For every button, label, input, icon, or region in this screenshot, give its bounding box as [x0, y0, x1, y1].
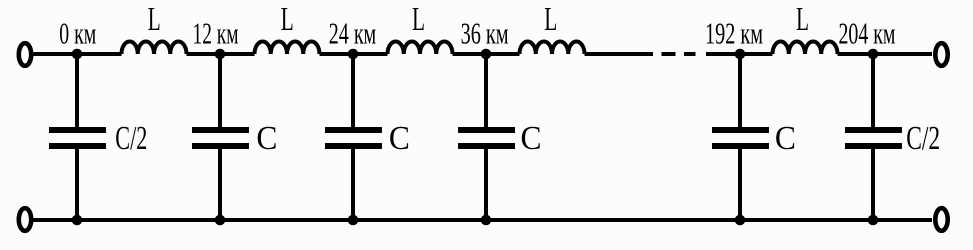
- node 0km dot top: [72, 49, 83, 60]
- wire dash 1: [662, 52, 676, 56]
- wire top segment D: [453, 52, 520, 56]
- capacitor C no.3: [325, 54, 382, 220]
- svg-text:12 км: 12 км: [193, 16, 239, 51]
- svg-text:C: C: [256, 120, 277, 157]
- inductor L4: [520, 41, 585, 54]
- node 36km dot top: [481, 49, 492, 60]
- terminal bottom-left: [19, 208, 31, 231]
- capacitor C/2 no.6: [845, 54, 902, 220]
- node 12km dot top: [215, 49, 226, 60]
- capacitor C/2 no.1: [49, 54, 106, 220]
- svg-text:C/2: C/2: [906, 120, 940, 157]
- svg-text:204 км: 204 км: [839, 16, 896, 51]
- svg-text:L: L: [148, 1, 161, 38]
- svg-text:24 км: 24 км: [329, 16, 377, 51]
- svg-text:C: C: [521, 120, 542, 157]
- wire bottom: [34, 218, 933, 222]
- svg-text:L: L: [796, 1, 809, 38]
- svg-text:C: C: [775, 120, 796, 157]
- inductor L2: [255, 41, 320, 54]
- wire top segment A: [34, 52, 122, 56]
- wire top segment C: [320, 52, 388, 56]
- node 192km dot top: [735, 49, 746, 60]
- svg-text:36 км: 36 км: [461, 16, 509, 51]
- svg-text:C/2: C/2: [115, 120, 147, 157]
- terminal bottom-right: [935, 208, 947, 231]
- terminal top-left: [19, 43, 31, 66]
- capacitor C no.4: [458, 54, 515, 220]
- svg-text:L: L: [544, 1, 557, 38]
- node 24km dot top: [348, 49, 359, 60]
- svg-text:192 км: 192 км: [705, 16, 763, 51]
- node dot bottom 5: [735, 215, 746, 226]
- wire top segment B: [187, 52, 255, 56]
- wire top segment E: [585, 52, 654, 56]
- svg-text:L: L: [281, 1, 294, 38]
- capacitor C no.5: [712, 54, 769, 220]
- inductor L5: [773, 41, 838, 54]
- wire top segment G: [838, 52, 933, 56]
- node dot bottom 3: [348, 215, 359, 226]
- node 204km dot top: [868, 49, 879, 60]
- wire dash 2: [684, 52, 696, 56]
- node dot bottom 4: [481, 215, 492, 226]
- wire top segment F: [706, 52, 773, 56]
- node dot bottom 6: [868, 215, 879, 226]
- node dot bottom 1: [72, 215, 83, 226]
- capacitor C no.2: [192, 54, 249, 220]
- svg-text:L: L: [412, 1, 425, 38]
- terminal top-right: [935, 43, 947, 66]
- inductor L1: [122, 41, 187, 54]
- node dot bottom 2: [215, 215, 226, 226]
- svg-text:0 км: 0 км: [59, 16, 96, 51]
- svg-text:C: C: [389, 120, 410, 157]
- inductor L3: [388, 41, 453, 54]
